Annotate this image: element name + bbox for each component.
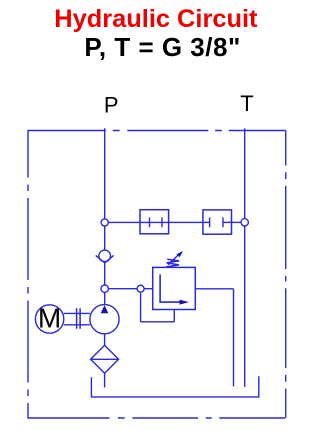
wire node B2 to relief valve inlet	[144, 288, 153, 290]
svg-text:P, T = G 3/8": P, T = G 3/8"	[84, 32, 240, 62]
node B2 (relief pilot junction)	[137, 285, 144, 292]
svg-text:Hydraulic Circuit: Hydraulic Circuit	[54, 5, 258, 33]
enclosure border left (dash-dot)	[27, 131, 29, 419]
node C (T junction on manifold)	[241, 219, 248, 226]
enclosure border bottom (dash-dot)	[27, 417, 285, 419]
relief valve internal arrowhead	[180, 300, 190, 305]
box 1 ticks	[150, 218, 163, 228]
svg-text:P: P	[104, 93, 119, 118]
wire node B1 to node B2	[108, 288, 137, 290]
box 1 through line	[140, 221, 169, 223]
enclosure border right (dash-dot)	[285, 131, 287, 419]
relief valve outlet wire	[195, 288, 233, 290]
wire T port down to node C	[244, 128, 246, 218]
check valve V1 (ball in seat)	[99, 250, 111, 262]
relief valve internal path	[160, 274, 180, 302]
plug/orifice box 1	[140, 210, 169, 234]
adjust arrowhead	[177, 251, 183, 257]
node B1 (pump outlet junction)	[101, 285, 108, 292]
box 2 left stub	[203, 221, 210, 223]
manifold wire node A to orifice box 1	[108, 221, 140, 223]
wire check valve to node B1	[104, 263, 106, 285]
pilot loop vertical from node B2	[140, 292, 142, 322]
relief valve bottom port	[173, 310, 175, 322]
pilot loop horizontal	[141, 321, 175, 323]
pump P1 circle	[90, 305, 119, 334]
manifold wire box2 to node C	[232, 221, 242, 223]
wire filter into tank	[104, 373, 106, 387]
suction filter F1 diamond	[91, 345, 119, 373]
box 2 right stub	[223, 221, 232, 223]
relief valve spring	[166, 259, 179, 267]
shaft coupling lines	[64, 313, 90, 324]
relief return line down into tank	[233, 289, 235, 387]
svg-text:M: M	[38, 302, 61, 333]
wire node B1 to pump	[104, 292, 106, 304]
filter screen line	[91, 358, 119, 360]
shaft coupling ticks	[77, 308, 81, 329]
wire pump to filter	[104, 334, 106, 346]
enclosure border top (dash-dot)	[27, 130, 285, 132]
wire P port down to node A	[104, 128, 106, 218]
svg-text:T: T	[240, 91, 253, 116]
relief valve adjust arrow	[168, 255, 178, 264]
node A (P junction on manifold)	[101, 219, 108, 226]
wire node A to check valve	[104, 226, 106, 250]
box 2 ticks	[210, 218, 223, 228]
relief valve RV1 body	[153, 267, 196, 309]
wire node C down into tank	[244, 226, 246, 387]
plug/orifice box 2	[203, 210, 232, 234]
electric motor M1 circle	[35, 305, 63, 333]
manifold wire box1 to box2	[169, 221, 203, 223]
pump P1 outlet triangle	[101, 305, 109, 313]
tank symbol	[91, 376, 258, 397]
